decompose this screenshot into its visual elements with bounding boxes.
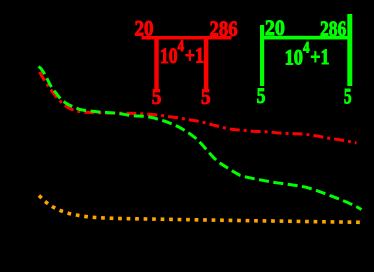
red legend bracket <box>142 36 232 89</box>
green dashed curve <box>39 67 362 210</box>
svg-text:20: 20 <box>265 15 285 40</box>
green legend bracket <box>260 14 352 86</box>
svg-text:20: 20 <box>135 16 154 41</box>
svg-text:+1: +1 <box>310 44 329 69</box>
svg-text:+1: +1 <box>185 42 204 67</box>
svg-text:5: 5 <box>344 84 352 109</box>
svg-text:5: 5 <box>257 83 266 108</box>
red left vertical bar <box>154 40 158 90</box>
red dash-dot curve <box>40 72 357 143</box>
red horizontal line <box>142 36 232 40</box>
green horizontal line <box>260 36 352 40</box>
red right vertical bar <box>204 40 209 90</box>
svg-text:4: 4 <box>303 39 310 56</box>
svg-text:5: 5 <box>152 84 162 109</box>
svg-text:10: 10 <box>160 43 178 68</box>
svg-text:10: 10 <box>285 44 303 69</box>
green left vertical bar <box>260 25 264 86</box>
svg-text:4: 4 <box>178 38 185 55</box>
orange dotted curve <box>39 196 362 223</box>
green right vertical bar <box>347 14 352 86</box>
svg-text:286: 286 <box>320 16 346 41</box>
svg-text:286: 286 <box>210 16 238 41</box>
svg-text:5: 5 <box>201 84 211 109</box>
